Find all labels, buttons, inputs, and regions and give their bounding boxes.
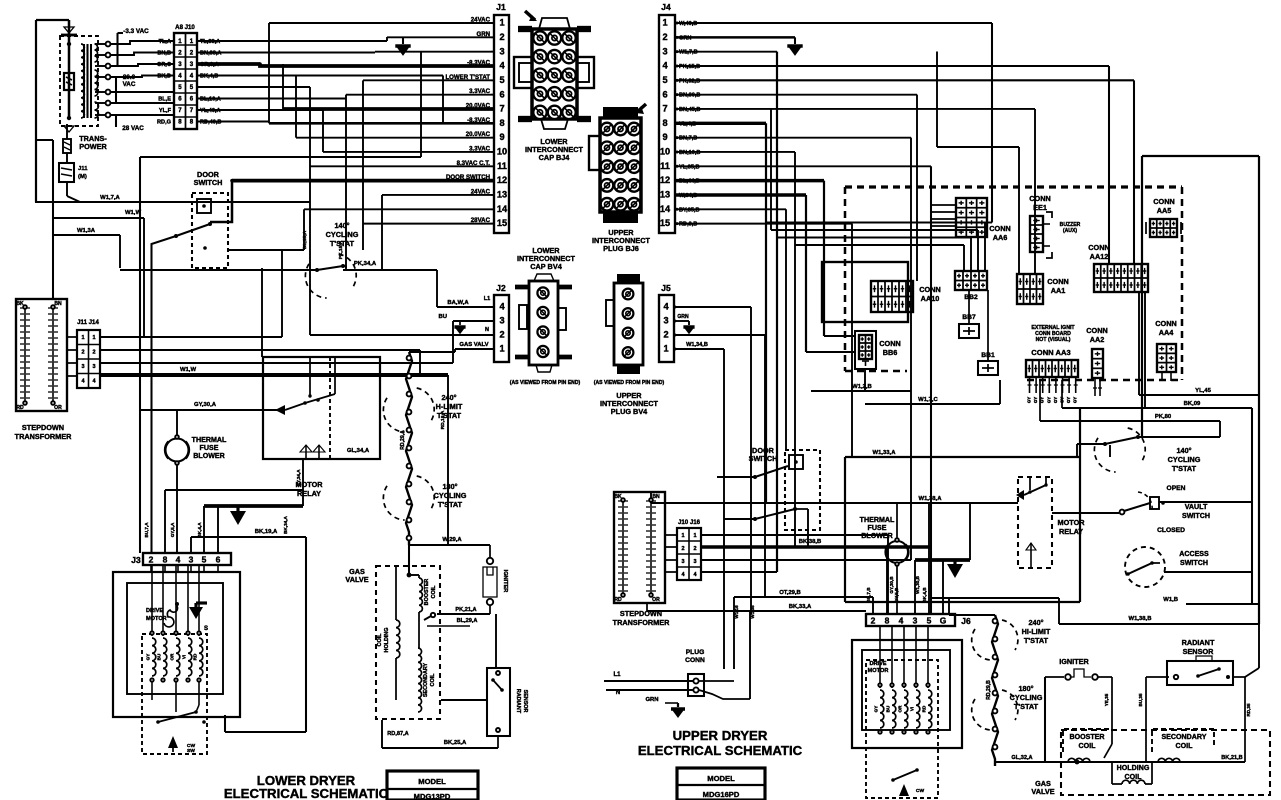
svg-text:ELECTRICAL SCHEMATIC: ELECTRICAL SCHEMATIC — [224, 786, 389, 800]
svg-text:140°: 140° — [334, 221, 349, 230]
stepdown transformer (upper) — [614, 492, 665, 603]
thermal fuse blower (lower) — [166, 439, 189, 462]
svg-text:GRN: GRN — [476, 31, 490, 38]
svg-text:PLUG BV4: PLUG BV4 — [611, 407, 648, 416]
svg-text:BN,45,B: BN,45,B — [679, 107, 700, 113]
ground in motor M1 — [196, 601, 207, 604]
svg-text:MODEL: MODEL — [418, 777, 446, 786]
svg-text:CONN: CONN — [1088, 243, 1110, 252]
svg-text:BU,7,A: BU,7,A — [144, 522, 149, 538]
svg-text:BK,33,A: BK,33,A — [789, 604, 812, 610]
svg-text:BN,7,B: BN,7,B — [679, 136, 697, 142]
svg-text:SENSOR: SENSOR — [1183, 647, 1215, 656]
svg-text:W,29,A: W,29,A — [442, 537, 462, 543]
wire sensor right — [1233, 676, 1245, 678]
transformer T1 primary loop wire — [36, 19, 69, 21]
wire W1,7,C — [865, 403, 1000, 405]
model table upper — [677, 768, 765, 800]
wire W1,B — [1186, 603, 1259, 605]
svg-text:L1: L1 — [484, 296, 490, 302]
svg-text:RELAY: RELAY — [1059, 527, 1083, 536]
svg-text:4: 4 — [176, 555, 181, 565]
wire door switch left contact — [152, 236, 177, 553]
svg-text:W1,33,A: W1,33,A — [873, 450, 897, 456]
svg-text:BK,19,A: BK,19,A — [255, 529, 278, 535]
console box outline — [1142, 155, 1259, 157]
svg-text:180°: 180° — [1018, 684, 1033, 693]
svg-text:J11 J14: J11 J14 — [77, 319, 99, 326]
svg-text:1: 1 — [92, 335, 95, 341]
connector CONN AA1 — [1017, 274, 1043, 304]
svg-text:BB6: BB6 — [883, 348, 898, 357]
access switch — [1125, 547, 1165, 587]
svg-text:J6: J6 — [961, 616, 971, 626]
svg-text:YE,35: YE,35 — [1104, 693, 1109, 706]
svg-text:MOTOR: MOTOR — [1057, 518, 1085, 527]
svg-text:OT,29,B: OT,29,B — [779, 590, 801, 596]
svg-text:RD,40,B: RD,40,B — [200, 120, 221, 126]
svg-text:15: 15 — [497, 218, 507, 228]
svg-text:W1,7,C: W1,7,C — [918, 397, 938, 403]
svg-text:BU: BU — [157, 653, 162, 660]
drive motor M2 (upper) — [852, 640, 962, 748]
svg-text:BK,34,A: BK,34,A — [283, 516, 288, 534]
svg-text:DRIVE: DRIVE — [146, 608, 163, 614]
svg-text:EE1: EE1 — [1033, 203, 1047, 212]
ground wire thick at J3 — [204, 504, 303, 508]
svg-text:PK,34,A: PK,34,A — [354, 261, 377, 267]
svg-text:CONN: CONN — [1047, 277, 1069, 286]
svg-text:15: 15 — [660, 218, 670, 228]
wires from J10 J16 — [701, 534, 888, 536]
svg-text:3: 3 — [499, 316, 504, 326]
gas valve secondary coil — [418, 648, 422, 712]
svg-text:MDG13PD: MDG13PD — [414, 792, 451, 800]
vertical bus wires left bundle — [268, 23, 270, 123]
svg-text:T'STAT: T'STAT — [437, 411, 462, 420]
svg-text:IGNITER: IGNITER — [1059, 657, 1089, 666]
svg-text:H-LIMIT: H-LIMIT — [436, 402, 463, 411]
thermostat 180 cycling (upper) — [972, 699, 991, 730]
wire BK,09 — [1062, 407, 1252, 409]
svg-text:CYCLING: CYCLING — [1168, 455, 1201, 464]
svg-text:-8.3VAC: -8.3VAC — [467, 59, 491, 66]
svg-text:J5: J5 — [661, 283, 671, 293]
svg-text:W1,38,B: W1,38,B — [1129, 616, 1152, 622]
wire BB6 bottom stub — [864, 369, 866, 391]
svg-text:8.3VAC C.T.: 8.3VAC C.T. — [457, 160, 491, 167]
svg-text:9: 9 — [662, 132, 667, 142]
svg-text:SECONDARY: SECONDARY — [1161, 733, 1206, 741]
svg-text:T'STAT: T'STAT — [1014, 702, 1039, 711]
svg-text:GRN: GRN — [645, 697, 658, 703]
transformer T1 primary rail — [68, 20, 71, 119]
connector BB2 — [955, 271, 987, 290]
svg-text:5: 5 — [662, 75, 667, 85]
wire PK,80 — [1040, 420, 1220, 422]
wire J3 feeds — [164, 490, 166, 553]
svg-text:DOOR SWITCH: DOOR SWITCH — [446, 174, 490, 181]
svg-text:POWER: POWER — [79, 142, 107, 151]
svg-text:HI-LIMIT: HI-LIMIT — [1022, 627, 1051, 636]
svg-text:14: 14 — [497, 204, 508, 214]
svg-text:CYCLING: CYCLING — [434, 491, 467, 500]
svg-text:CONN: CONN — [989, 224, 1011, 233]
svg-text:AA5: AA5 — [1157, 206, 1172, 215]
svg-text:W1,16: W1,16 — [734, 605, 739, 619]
svg-text:5: 5 — [499, 75, 504, 85]
svg-text:YL,F: YL,F — [159, 108, 172, 114]
svg-text:13: 13 — [660, 190, 670, 200]
svg-text:13: 13 — [497, 190, 507, 200]
svg-text:IGNITER: IGNITER — [502, 570, 508, 593]
svg-text:6: 6 — [662, 89, 667, 99]
svg-text:OR: OR — [898, 705, 903, 713]
svg-text:BK,D: BK,D — [157, 74, 171, 80]
svg-text:CLOSED: CLOSED — [1157, 527, 1185, 534]
svg-text:THERMAL: THERMAL — [860, 516, 895, 524]
svg-text:7: 7 — [499, 104, 504, 114]
svg-text:3: 3 — [81, 364, 84, 370]
svg-text:J1: J1 — [496, 2, 506, 12]
thermal fuse blower (upper) — [886, 541, 908, 563]
svg-text:BL,E: BL,E — [158, 97, 171, 103]
svg-text:AA4: AA4 — [1159, 328, 1175, 337]
svg-text:MODEL: MODEL — [707, 774, 735, 783]
svg-text:20.0VAC: 20.0VAC — [466, 102, 491, 109]
gas valve booster coil — [408, 545, 410, 575]
board box outline — [822, 262, 908, 322]
svg-text:3: 3 — [92, 364, 95, 370]
svg-text:TRANSFORMER: TRANSFORMER — [15, 432, 72, 441]
svg-text:CAP BV4: CAP BV4 — [530, 262, 562, 271]
svg-text:RD,87,A: RD,87,A — [387, 731, 408, 737]
svg-text:24VAC: 24VAC — [471, 17, 491, 24]
svg-text:2: 2 — [662, 32, 667, 42]
svg-text:MDG16PD: MDG16PD — [703, 790, 740, 799]
svg-text:11: 11 — [660, 161, 670, 171]
svg-text:BOOSTER: BOOSTER — [1069, 733, 1104, 741]
svg-text:W1,W: W1,W — [180, 367, 196, 373]
svg-text:GAS VALV: GAS VALV — [459, 342, 488, 348]
wire relay feed — [261, 268, 263, 357]
svg-text:4: 4 — [663, 302, 669, 312]
wire J6 to heater loop — [931, 597, 1059, 599]
svg-text:BK: BK — [16, 301, 24, 307]
wires J3 pins down to motor — [150, 565, 152, 572]
svg-text:YL,40,A: YL,40,A — [200, 108, 221, 114]
svg-text:8: 8 — [662, 118, 667, 128]
svg-text:BN: BN — [54, 301, 62, 307]
svg-text:NOT (VISUAL): NOT (VISUAL) — [1036, 337, 1071, 343]
svg-text:HOLDING: HOLDING — [384, 628, 390, 653]
svg-text:GY: GY — [1073, 397, 1078, 403]
svg-text:2: 2 — [81, 350, 84, 356]
svg-text:1: 1 — [81, 335, 84, 341]
vault switch — [1120, 510, 1125, 515]
fuse J11(M) — [66, 124, 68, 139]
svg-text:28 VAC: 28 VAC — [122, 125, 144, 132]
wire BK,25,A bottom — [382, 747, 498, 749]
wire igniter top W,29,A — [409, 544, 490, 546]
svg-text:CONN: CONN — [1153, 197, 1175, 206]
svg-text:SWITCH: SWITCH — [1180, 559, 1208, 567]
svg-text:RD,3,B: RD,3,B — [679, 222, 697, 228]
svg-text:T'STAT: T'STAT — [438, 500, 463, 509]
wires to BB2 from left — [766, 222, 985, 224]
svg-text:SW: SW — [187, 748, 195, 754]
svg-text:DRIVE: DRIVE — [869, 661, 886, 667]
svg-text:SWITCH: SWITCH — [1182, 512, 1210, 520]
wires from J5 — [674, 306, 751, 308]
svg-text:6: 6 — [216, 555, 221, 565]
svg-text:COIL: COIL — [377, 633, 383, 647]
svg-text:VAC: VAC — [123, 81, 136, 88]
svg-text:BLOWER: BLOWER — [193, 452, 225, 460]
svg-text:CAP BJ4: CAP BJ4 — [539, 153, 571, 162]
svg-text:PLUG BJ6: PLUG BJ6 — [603, 244, 639, 253]
svg-text:GY: GY — [1033, 397, 1038, 403]
model table lower — [387, 771, 478, 800]
svg-text:CONN: CONN — [879, 339, 901, 348]
connector cap LOWER INTERCONNECT CAP BJ4 — [532, 29, 577, 119]
fuse F1 on primary rail — [64, 73, 74, 90]
svg-text:GY: GY — [1053, 397, 1058, 403]
svg-text:CW: CW — [916, 788, 925, 794]
svg-text:VI: VI — [182, 655, 187, 659]
wire J6 feeds — [872, 597, 874, 614]
svg-text:G: G — [940, 616, 947, 626]
svg-text:3: 3 — [499, 46, 504, 56]
gas valve V2 (upper) — [1061, 730, 1270, 795]
svg-text:12: 12 — [497, 175, 507, 185]
svg-text:SECONDARY: SECONDARY — [423, 662, 429, 697]
svg-text:20.0VAC: 20.0VAC — [466, 131, 491, 138]
wires from J4 pins — [675, 22, 992, 24]
connector J6 — [866, 614, 955, 626]
svg-text:1: 1 — [693, 533, 696, 539]
svg-text:BK,4,A: BK,4,A — [197, 522, 202, 538]
transformer T1 secondary taps — [95, 43, 105, 45]
svg-text:180°: 180° — [442, 482, 457, 491]
secondary coil (upper) — [1152, 729, 1214, 752]
svg-text:8: 8 — [499, 118, 504, 128]
svg-text:RD: RD — [193, 653, 198, 660]
svg-text:3: 3 — [913, 616, 918, 626]
svg-text:BK,4,B: BK,4,B — [200, 74, 218, 80]
wire W1,38,A — [651, 502, 1018, 504]
motor relay K2 (upper) — [1018, 477, 1052, 568]
svg-text:COIL: COIL — [431, 585, 437, 599]
svg-text:W1,B: W1,B — [1163, 597, 1178, 603]
svg-text:9: 9 — [499, 132, 504, 142]
svg-text:GY,5,B: GY,5,B — [894, 587, 899, 602]
svg-text:240°: 240° — [441, 393, 456, 402]
igniter bottom contacts — [489, 605, 491, 614]
svg-text:4: 4 — [499, 61, 505, 71]
door switch S1 — [192, 193, 228, 268]
svg-text:T'STAT: T'STAT — [1172, 464, 1197, 473]
svg-text:CONN AA3: CONN AA3 — [1031, 348, 1070, 357]
svg-text:RD: RD — [922, 705, 927, 712]
wire bottom heater loop — [995, 761, 1045, 763]
svg-text:(M): (M) — [78, 174, 87, 180]
connector CONN AA6 — [956, 198, 987, 237]
transformer T1 TRANS-POWER — [60, 36, 98, 126]
heater sensor chain (lower) — [406, 352, 412, 545]
svg-text:RD,29,B: RD,29,B — [986, 680, 992, 700]
svg-text:240°: 240° — [1028, 618, 1043, 627]
svg-text:SWITCH: SWITCH — [749, 454, 778, 463]
svg-text:7: 7 — [662, 104, 667, 114]
connector plug UPPER INTERCONNECT PLUG BV4 — [614, 283, 643, 365]
svg-text:GY,30,A: GY,30,A — [194, 402, 217, 408]
svg-text:RD: RD — [614, 597, 622, 603]
svg-text:3: 3 — [189, 555, 194, 565]
wires into J2 — [437, 306, 494, 308]
svg-text:3.3VAC: 3.3VAC — [469, 145, 490, 152]
wire W1,7,A — [67, 196, 80, 202]
svg-text:BL,29,A: BL,29,A — [457, 618, 478, 624]
wires into J1 pins — [269, 22, 495, 24]
svg-text:YL,35,B: YL,35,B — [679, 164, 700, 170]
svg-text:11: 11 — [497, 161, 507, 171]
svg-text:OPEN: OPEN — [1167, 485, 1186, 492]
svg-text:SENSOR: SENSOR — [522, 690, 528, 713]
wire relay output to J3 — [302, 459, 304, 506]
svg-text:COIL: COIL — [430, 673, 436, 687]
thermostat 140 cycling (upper) — [1077, 443, 1105, 445]
control board dashed boundary — [845, 185, 1182, 188]
svg-text:BK,25,A: BK,25,A — [444, 740, 467, 746]
svg-text:3: 3 — [693, 559, 696, 565]
svg-text:CONN: CONN — [1029, 194, 1051, 203]
svg-text:BK,4,B: BK,4,B — [922, 587, 927, 603]
svg-text:BB2: BB2 — [964, 294, 978, 301]
svg-text:TL,38,A: TL,38,A — [200, 39, 220, 45]
svg-text:J2: J2 — [496, 283, 506, 293]
svg-text:BN,10,B: BN,10,B — [679, 150, 700, 156]
svg-text:140°: 140° — [1176, 446, 1191, 455]
svg-text:FUSE: FUSE — [868, 524, 887, 532]
svg-text:12: 12 — [660, 175, 670, 185]
svg-text:W1,38,A: W1,38,A — [919, 496, 943, 502]
svg-text:MOTOR: MOTOR — [868, 668, 889, 674]
motor circuit box (upper) — [845, 456, 1080, 458]
svg-text:2: 2 — [92, 350, 95, 356]
motor relay K1 (lower) — [263, 357, 380, 459]
svg-text:BU,35: BU,35 — [1138, 693, 1143, 706]
wire BK,19,A — [191, 536, 306, 538]
node dots J10 bundle — [258, 62, 262, 66]
svg-text:2: 2 — [499, 32, 504, 42]
svg-text:J3: J3 — [131, 555, 141, 565]
wire GY,30,A to motor relay — [140, 409, 285, 411]
svg-text:GL,34,A: GL,34,A — [347, 448, 370, 454]
svg-text:COIL: COIL — [1176, 742, 1194, 750]
svg-text:BK: BK — [614, 494, 622, 500]
svg-text:CYCLING: CYCLING — [326, 230, 359, 239]
svg-text:2: 2 — [499, 330, 504, 340]
svg-text:GY: GY — [1027, 397, 1032, 403]
svg-text:LOWER T'STAT: LOWER T'STAT — [445, 74, 490, 81]
svg-text:SWITCH: SWITCH — [194, 178, 223, 187]
svg-text:BU: BU — [438, 314, 447, 320]
svg-text:BY,35,B: BY,35,B — [679, 207, 700, 213]
svg-text:UPPER DRYER: UPPER DRYER — [673, 728, 768, 743]
svg-text:RD,29,A: RD,29,A — [400, 430, 406, 450]
ground G1 near J1 pin2 — [402, 37, 404, 44]
svg-text:2: 2 — [149, 555, 154, 565]
svg-text:AA10: AA10 — [921, 294, 940, 303]
svg-text:BU,7,B: BU,7,B — [866, 587, 871, 603]
connector plug UPPER INTERCONNECT PLUG BJ6 — [600, 118, 641, 212]
booster coil (upper) — [1063, 729, 1110, 752]
svg-text:AA2: AA2 — [1090, 335, 1105, 344]
thermostat 240 H-LIMIT (lower) — [383, 398, 404, 432]
wire W1,W upper — [52, 140, 54, 299]
svg-text:BU: BU — [886, 705, 891, 712]
radiant sensor (lower) — [495, 614, 497, 668]
svg-text:GY,5,A: GY,5,A — [170, 522, 175, 537]
svg-text:A8 J10: A8 J10 — [175, 24, 195, 31]
wire right loop to motor — [305, 537, 307, 732]
svg-text:BK,21,B: BK,21,B — [1221, 755, 1242, 761]
svg-text:RD,G: RD,G — [157, 120, 171, 126]
svg-text:BN: BN — [652, 494, 660, 500]
svg-text:PK,15,A: PK,15,A — [338, 240, 344, 259]
drive motor M1 (lower) — [113, 572, 240, 717]
svg-text:3.3VAC: 3.3VAC — [469, 88, 490, 95]
svg-text:COIL: COIL — [1079, 742, 1097, 750]
svg-text:6: 6 — [499, 89, 504, 99]
connector J10 — [174, 33, 197, 129]
wire door switch pin14 branch — [228, 249, 304, 251]
svg-text:HOLDING: HOLDING — [1117, 764, 1150, 772]
svg-text:CYCLING: CYCLING — [1010, 693, 1043, 702]
transformer T2 STEPDOWN (lower) — [16, 299, 67, 411]
svg-text:TRANSFORMER: TRANSFORMER — [613, 618, 670, 627]
wire vertical right console — [1251, 408, 1253, 604]
thermostat 240 HI-LIMIT (upper) — [972, 629, 991, 660]
label 20.0 VAC — [115, 77, 117, 102]
svg-text:BL,16,A: BL,16,A — [200, 97, 221, 103]
wire OT,29,B — [734, 596, 873, 598]
svg-text:CONN: CONN — [1086, 326, 1108, 335]
svg-text:T'STAT: T'STAT — [1024, 636, 1049, 645]
svg-text:J4: J4 — [661, 2, 671, 12]
svg-text:PK,80: PK,80 — [1155, 414, 1172, 420]
svg-text:STEPDOWN: STEPDOWN — [22, 423, 64, 432]
svg-text:PK,21,A: PK,21,A — [455, 607, 476, 613]
svg-text:CONN: CONN — [919, 285, 941, 294]
wire W1,3A — [53, 234, 120, 236]
igniter E1 (lower) — [487, 558, 493, 564]
wire door switch to J1 pin12 — [210, 181, 232, 222]
svg-text:W1,7,B: W1,7,B — [679, 50, 698, 56]
svg-text:5: 5 — [202, 555, 207, 565]
wire relay to vault switch — [1052, 512, 1119, 514]
svg-text:(AUX): (AUX) — [1063, 228, 1077, 234]
wires J10 to J1 bundle — [198, 40, 387, 42]
svg-text:2: 2 — [681, 546, 684, 552]
svg-text:BK,38,B: BK,38,B — [799, 539, 822, 545]
svg-text:OR: OR — [652, 597, 660, 603]
svg-text:TL,A: TL,A — [159, 39, 171, 45]
svg-text:BOOSTER: BOOSTER — [424, 579, 430, 606]
svg-text:1: 1 — [499, 344, 504, 354]
svg-text:W1,7,A: W1,7,A — [100, 195, 120, 201]
